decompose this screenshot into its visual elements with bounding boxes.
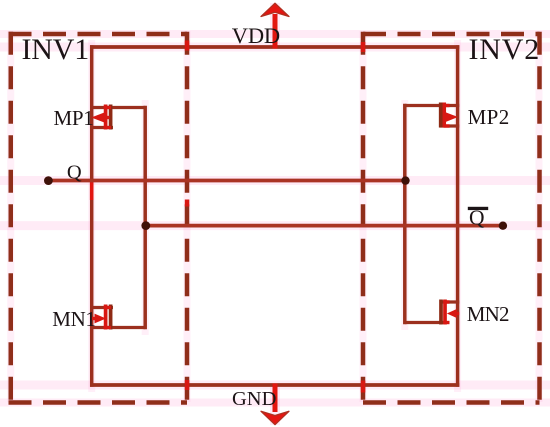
svg-text:VDD: VDD (232, 23, 280, 48)
svg-text:MN1: MN1 (52, 307, 95, 331)
MP1 gate arrow (91, 113, 104, 123)
MN2 drain lead (440, 300, 460, 303)
wire red segment below Q crossing (90, 181, 94, 200)
MN2 gate bar (red) (443, 300, 447, 325)
MP2 contact stubs (red) (444, 104, 450, 107)
red dash crossing at VDD and INV2 box (361, 42, 366, 52)
transistor MP2 (405, 103, 460, 128)
wire GND rail (90, 383, 459, 387)
MP2 gate bar (red) (442, 103, 446, 128)
svg-text:Q: Q (67, 162, 82, 184)
MP1 source lead (90, 106, 145, 109)
red dash crossing at VDD and INV1 box (185, 41, 190, 51)
MP2 source lead (405, 104, 460, 107)
MN1 contact stubs (red) (104, 306, 112, 309)
MP2 drain lead (440, 124, 460, 127)
svg-text:INV1: INV1 (22, 33, 90, 66)
MN1 source lead (90, 326, 145, 329)
MP1 channel bar (109, 105, 113, 130)
INV2 dashed box (363, 32, 540, 405)
MN1 drain lead (90, 306, 113, 309)
wire INV1 output vertical (143, 106, 147, 329)
MN1 gate bar (red) (104, 305, 108, 330)
wire node Q horizontal (49, 179, 407, 183)
MP1 gate bar (red) (104, 105, 108, 130)
transistor MN2 (405, 300, 460, 325)
node Q dot (44, 176, 53, 185)
svg-text:GND: GND (232, 388, 276, 410)
transistor MN1 (90, 305, 145, 330)
label Qbar (468, 206, 488, 230)
wire INV2 gate/feed vertical (456, 45, 460, 387)
MN2 channel bar (439, 300, 443, 325)
node Q junction dot (INV2 output) (401, 176, 409, 184)
node Qbar end dot (499, 222, 507, 230)
VDD power arrow (261, 3, 289, 48)
MP2 channel bar (439, 103, 443, 128)
wire INV1 gate/feed vertical (90, 45, 94, 387)
node Qbar junction dot (INV1 output) (141, 221, 150, 230)
svg-text:INV2: INV2 (469, 33, 541, 66)
MP1 contact stubs (red) (104, 106, 112, 109)
transistor MP1 (90, 105, 145, 130)
MN2 source lead (405, 321, 444, 324)
MP2 gate arrow (446, 112, 459, 122)
MN1 gate arrow (95, 314, 107, 324)
red dash below Q crossing on INV1 right edge (185, 200, 190, 207)
red dash crossing at GND and INV1 box (185, 380, 190, 390)
MN1 channel bar (109, 305, 113, 330)
MN2 gate arrow (447, 309, 457, 318)
wire node Qbar horizontal (146, 224, 503, 228)
GND power arrow (261, 384, 289, 425)
svg-text:MP2: MP2 (468, 105, 510, 129)
wire VDD rail (90, 45, 459, 49)
svg-text:MN2: MN2 (467, 302, 509, 326)
MN2 contact stubs (red) (444, 300, 450, 303)
INV1 dashed box (9, 32, 188, 405)
MP1 drain lead (90, 126, 113, 129)
red dash crossing at GND and INV2 box (361, 381, 366, 393)
wire INV2 output vertical (403, 104, 407, 324)
svg-text:MP1: MP1 (54, 106, 94, 130)
